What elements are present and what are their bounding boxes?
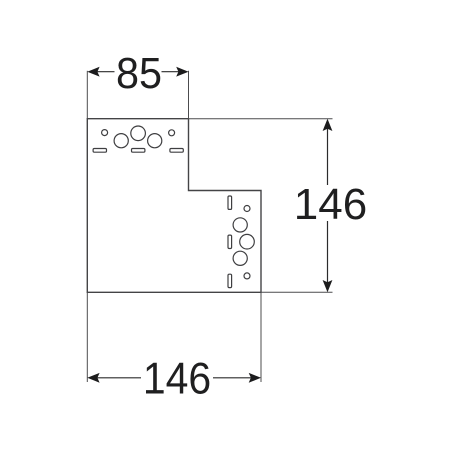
wire left extension down [86,292,88,382]
hole big circle top B [131,126,146,141]
slot right bottom [228,274,232,287]
wire top extension line to right dim [189,118,333,120]
hole big circle right B [240,234,255,249]
svg-text:85: 85 [116,49,162,98]
wire bottom extension line to right dim [261,291,333,293]
wire right extension down [260,292,262,382]
hole big circle right C [233,251,247,265]
slot top right [170,149,183,153]
slot right middle [228,235,232,248]
slot top middle [132,149,145,153]
svg-text:146: 146 [294,180,367,229]
hole big circle top C [148,134,162,148]
wire notch extension up [188,71,190,119]
hole small circle right bottom [244,273,250,279]
hole big circle top A [114,134,128,148]
wire left extension up [86,71,88,119]
dim 85 line [92,71,115,73]
slot right top [228,196,232,209]
dim 146 bottom line [92,377,141,379]
slot top left [93,149,106,153]
dim 146 right line [327,123,329,185]
hole big circle right A [233,218,247,232]
plate outline [87,119,261,293]
hole small circle top-right [169,130,175,136]
hole small circle right top [244,206,250,212]
svg-text:146: 146 [143,354,211,404]
hole small circle top-left [102,130,108,136]
